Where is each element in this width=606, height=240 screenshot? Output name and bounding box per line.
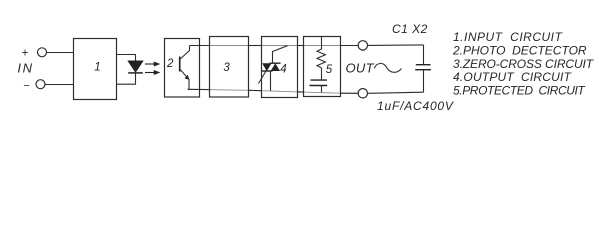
svg-text:2: 2 <box>166 58 174 70</box>
light emission arrow lower <box>145 71 159 74</box>
svg-text:2.PHOTO DECTECTOR: 2.PHOTO DECTECTOR <box>452 43 587 57</box>
wire LED top stub <box>117 55 136 62</box>
svg-text:5.PROTECTED CIRCUIT: 5.PROTECTED CIRCUIT <box>453 84 586 98</box>
block 4 output circuit <box>262 37 298 98</box>
wire OUT bottom to capacitor <box>368 92 424 93</box>
snubber capacitor bottom plate <box>310 85 328 87</box>
wire top rail segment box4-box5 <box>298 45 304 47</box>
svg-text:C1 X2: C1 X2 <box>392 22 428 36</box>
triac bottom bar <box>262 70 273 72</box>
terminal OUT bottom <box>358 89 367 98</box>
phototransistor emitter with arrow <box>180 69 189 89</box>
wire bottom rail segment box3-box4 <box>248 89 261 91</box>
LED D1 cathode bar <box>128 72 143 74</box>
wire OUT top to capacitor <box>368 44 424 47</box>
svg-text:3: 3 <box>223 62 230 74</box>
wire top rail segment box5-terminal <box>341 45 359 47</box>
triac right triangle (points up) <box>271 63 280 71</box>
wire bottom rail (through-box faint) <box>188 89 359 93</box>
snubber capacitor top plate <box>311 79 328 81</box>
svg-text:5: 5 <box>326 64 333 76</box>
svg-text:4: 4 <box>280 63 286 75</box>
block 5 protected circuit <box>304 37 341 97</box>
resistor R zigzag <box>317 49 325 68</box>
wire bottom rail segment box2-box3 <box>188 88 210 90</box>
triac left triangle (points down) <box>262 63 271 71</box>
terminal IN+ <box>38 48 47 57</box>
wire top rail segment box2-box3 <box>190 45 210 47</box>
triac top lead <box>273 46 288 64</box>
ac sine symbol <box>374 63 401 72</box>
wire IN+ to block1 <box>47 52 74 54</box>
svg-text:4.OUTPUT CIRCUIT: 4.OUTPUT CIRCUIT <box>453 70 573 84</box>
wire bottom rail segment box5-terminal <box>341 92 359 94</box>
triac top bar <box>270 62 281 64</box>
LED D1 anode triangle <box>128 61 143 72</box>
block 2 photo detector <box>165 39 200 98</box>
svg-text:1: 1 <box>94 61 100 73</box>
svg-text:1uF/AC400V: 1uF/AC400V <box>377 99 454 113</box>
svg-text:3.ZERO-CROSS CIRCUIT: 3.ZERO-CROSS CIRCUIT <box>453 57 595 71</box>
wire top rail (through-box faint) <box>190 45 359 47</box>
wire bottom rail segment box4-box5 <box>298 91 304 93</box>
wire LED bottom return <box>117 73 136 84</box>
block 1 input circuit <box>74 39 117 100</box>
capacitor C1 top plate <box>416 64 431 66</box>
wire top rail segment box3-box4 <box>248 45 261 47</box>
svg-text:+: + <box>21 47 28 59</box>
phototransistor collector <box>180 46 190 60</box>
capacitor C1 top lead <box>423 45 425 65</box>
block 3 zero-cross circuit <box>210 37 249 98</box>
svg-text:−: − <box>23 80 30 92</box>
phototransistor base bar <box>179 57 181 72</box>
svg-text:IN: IN <box>17 61 33 76</box>
wire IN- to block1 <box>45 84 73 86</box>
svg-text:1.INPUT CIRCUIT: 1.INPUT CIRCUIT <box>453 30 564 44</box>
capacitor C1 bottom lead <box>423 70 425 93</box>
terminal OUT top <box>358 41 367 50</box>
light emission arrow upper <box>145 62 159 65</box>
triac MT1 lead <box>270 71 272 91</box>
svg-text:OUT: OUT <box>346 61 375 76</box>
triac gate lead <box>259 71 267 84</box>
snubber capacitor bottom lead <box>321 86 323 93</box>
resistor R top lead <box>321 37 323 50</box>
snubber capacitor top lead <box>321 68 323 80</box>
capacitor C1 bottom plate <box>415 69 431 71</box>
terminal IN- <box>36 80 45 89</box>
